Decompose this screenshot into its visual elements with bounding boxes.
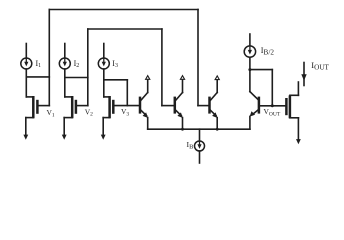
svg-text:IB/2: IB/2 xyxy=(261,46,275,56)
